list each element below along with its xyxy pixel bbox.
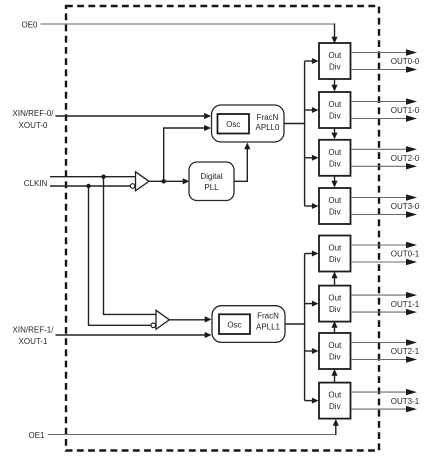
svg-text:Out: Out [328,391,342,400]
svg-text:FracN: FracN [257,312,279,321]
svg-text:OE1: OE1 [28,431,45,440]
svg-text:OUT3-0: OUT3-0 [391,202,420,211]
svg-text:Div: Div [329,112,341,121]
svg-text:Osc: Osc [226,120,240,129]
svg-text:Out: Out [328,196,342,205]
svg-text:XOUT-1: XOUT-1 [19,337,48,346]
svg-text:OUT2-1: OUT2-1 [391,347,420,356]
svg-text:Div: Div [329,159,341,168]
svg-text:XIN/REF-1/: XIN/REF-1/ [13,325,55,334]
svg-text:Out: Out [328,244,342,253]
svg-text:OUT2-0: OUT2-0 [391,154,420,163]
svg-text:Out: Out [328,148,342,157]
svg-text:PLL: PLL [204,183,219,192]
svg-text:OE0: OE0 [21,20,38,29]
svg-text:FracN: FracN [257,113,279,122]
svg-text:Out: Out [328,100,342,109]
svg-text:OUT3-1: OUT3-1 [391,397,420,406]
svg-text:Div: Div [329,305,341,314]
svg-text:Div: Div [329,353,341,362]
svg-text:Div: Div [329,63,341,72]
svg-text:Div: Div [329,255,341,264]
svg-text:OUT0-1: OUT0-1 [391,250,420,259]
svg-text:Digital: Digital [200,172,222,181]
svg-text:OUT0-0: OUT0-0 [391,57,420,66]
svg-text:OUT1-1: OUT1-1 [391,300,420,309]
svg-text:CLKIN: CLKIN [24,179,48,188]
svg-text:Out: Out [328,51,342,60]
svg-text:APLL0: APLL0 [255,123,280,132]
svg-text:APLL1: APLL1 [256,322,281,331]
svg-text:Div: Div [329,208,341,217]
svg-text:Div: Div [329,402,341,411]
svg-text:Out: Out [328,341,342,350]
svg-text:Out: Out [328,294,342,303]
svg-text:OUT1-0: OUT1-0 [391,106,420,115]
svg-text:Osc: Osc [227,321,241,330]
svg-text:XIN/REF-0/: XIN/REF-0/ [13,109,55,118]
svg-text:XOUT-0: XOUT-0 [19,121,48,130]
